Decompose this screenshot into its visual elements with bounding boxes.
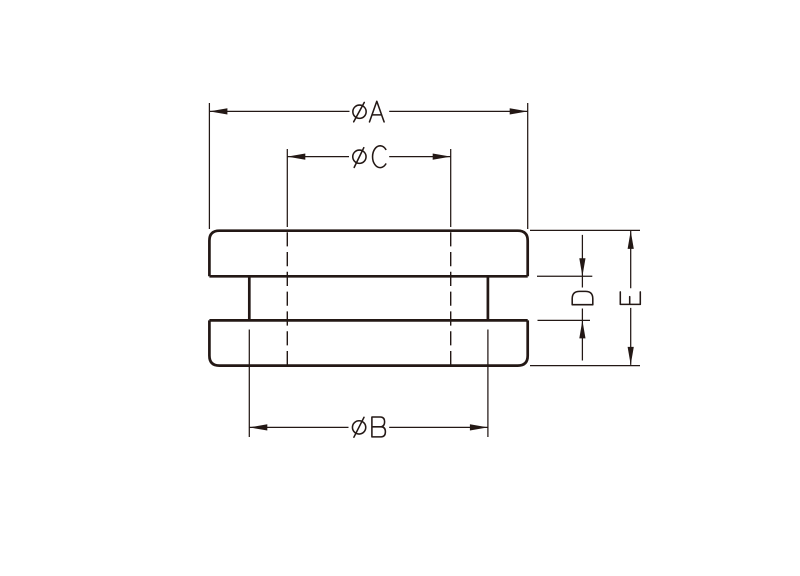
arrowhead B right <box>470 424 488 430</box>
arrowhead C left <box>287 154 305 160</box>
label letter A <box>370 101 385 122</box>
dimension B extension line left <box>248 330 250 438</box>
dimension A extension line right <box>527 103 529 229</box>
dimension B line <box>249 426 488 428</box>
extension line part top right <box>530 229 640 231</box>
grommet bottom flange outline <box>209 320 527 365</box>
dimension C line <box>287 156 450 158</box>
label letter D rotated <box>572 291 593 304</box>
arrowhead B left <box>249 424 267 430</box>
dimension D line <box>581 235 583 361</box>
dimension B extension line right <box>487 330 489 438</box>
extension line bottom flange top right <box>538 319 591 321</box>
arrowhead D bottom <box>579 320 585 338</box>
extension line part bottom right <box>530 365 640 367</box>
label diameter symbol of C <box>353 150 366 163</box>
dimension C extension line right <box>450 149 452 227</box>
groove neck left edge <box>248 276 251 320</box>
dimension A line <box>209 110 527 112</box>
arrowhead A left <box>209 108 227 114</box>
arrowhead A right <box>510 108 528 114</box>
dimension A extension line left <box>208 103 210 229</box>
dimension C extension line left <box>286 149 288 227</box>
grommet top flange outline <box>209 231 527 277</box>
hidden hole line right <box>450 232 452 365</box>
arrowhead E top <box>628 231 634 249</box>
arrowhead E bottom <box>628 347 634 365</box>
extension line top flange bottom right <box>537 275 592 277</box>
label letter B <box>372 417 386 437</box>
dimension E line <box>630 231 632 365</box>
arrowhead D top <box>579 258 585 276</box>
label letter C <box>373 146 386 168</box>
top flange bottom edge <box>209 275 527 278</box>
arrowhead C right <box>433 154 451 160</box>
label letter E rotated <box>620 292 640 305</box>
label diameter symbol of B <box>352 421 365 434</box>
bottom flange top edge <box>209 319 527 322</box>
hidden hole line left <box>286 232 288 365</box>
label diameter symbol of A <box>353 105 366 118</box>
groove neck right edge <box>487 276 490 320</box>
